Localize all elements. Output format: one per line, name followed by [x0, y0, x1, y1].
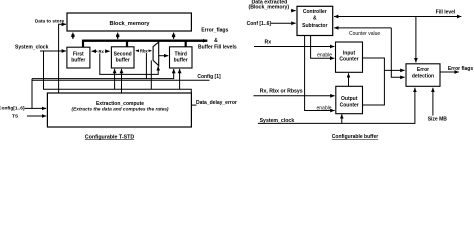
svg-text:Size MB: Size MB — [428, 116, 448, 122]
svg-text:Configurable T-STD: Configurable T-STD — [85, 134, 135, 140]
svg-text:detection: detection — [412, 73, 434, 79]
svg-text:Block_memory: Block_memory — [109, 21, 150, 27]
svg-text:Data_delay_error: Data_delay_error — [196, 100, 237, 106]
svg-text:&: & — [214, 38, 218, 44]
svg-text:Error flags: Error flags — [448, 66, 474, 72]
svg-text:Second: Second — [114, 52, 132, 58]
svg-text:Buffer Fill levels: Buffer Fill levels — [198, 44, 237, 50]
svg-text:&: & — [313, 16, 317, 22]
svg-text:Rx: Rx — [264, 40, 271, 46]
svg-text:Conf [1..6]: Conf [1..6] — [247, 21, 272, 27]
svg-text:Data to store: Data to store — [35, 18, 65, 24]
svg-text:buffer: buffer — [116, 58, 130, 64]
svg-text:First: First — [73, 52, 84, 58]
svg-text:Controller: Controller — [303, 9, 327, 15]
svg-text:Output: Output — [341, 96, 358, 102]
svg-text:Config[1..6]: Config[1..6] — [0, 106, 25, 112]
svg-text:Error: Error — [417, 67, 429, 73]
svg-text:Counter: Counter — [340, 102, 359, 108]
svg-text:Fill level: Fill level — [436, 10, 456, 16]
svg-text:TS: TS — [12, 113, 19, 119]
svg-text:System_clock: System_clock — [15, 45, 49, 51]
svg-text:Error_flags: Error_flags — [201, 27, 228, 33]
svg-text:System_clock: System_clock — [260, 118, 295, 124]
svg-text:(Extracts the data and compute: (Extracts the data and computes the rate… — [71, 107, 168, 113]
svg-text:Rx: Rx — [99, 49, 105, 54]
svg-text:Counter: Counter — [339, 56, 358, 62]
svg-text:Subtractor: Subtractor — [302, 23, 327, 29]
svg-text:buffer: buffer — [174, 58, 188, 64]
svg-text:Configurable buffer: Configurable buffer — [332, 134, 378, 140]
svg-text:Third: Third — [174, 52, 187, 58]
svg-text:enable: enable — [317, 53, 332, 59]
svg-text:Extraction_compute: Extraction_compute — [96, 101, 144, 107]
svg-text:Rx, Rbx or Rbsys: Rx, Rbx or Rbsys — [260, 88, 303, 94]
svg-text:Rbx: Rbx — [140, 48, 149, 53]
svg-text:Config [1]: Config [1] — [197, 74, 221, 80]
svg-text:Counter value: Counter value — [349, 31, 380, 37]
svg-text:enable: enable — [316, 105, 331, 111]
svg-text:buffer: buffer — [71, 58, 85, 64]
svg-text:(Block_memory): (Block_memory) — [248, 4, 289, 10]
